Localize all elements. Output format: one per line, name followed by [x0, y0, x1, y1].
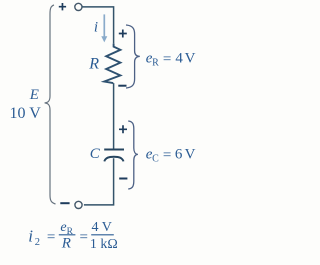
svg-text:i: i	[28, 226, 33, 245]
svg-text:10 V: 10 V	[10, 105, 42, 122]
svg-text:R: R	[88, 55, 99, 72]
wire bottom	[84, 158, 114, 205]
svg-text:i: i	[94, 19, 98, 35]
capacitor C	[104, 150, 124, 162]
plus sign capacitor	[119, 125, 127, 133]
wire top	[82, 7, 114, 44]
svg-text:=: =	[163, 52, 171, 68]
plus sign resistor	[119, 30, 127, 38]
svg-text:6: 6	[175, 146, 183, 162]
svg-text:1 kΩ: 1 kΩ	[90, 237, 118, 252]
minus sign source	[60, 202, 69, 204]
svg-text:E: E	[29, 87, 39, 103]
terminal top	[75, 3, 82, 10]
minus sign capacitor	[119, 178, 127, 180]
svg-text:=: =	[163, 147, 171, 163]
resistor R	[104, 44, 120, 84]
svg-text:4: 4	[175, 51, 183, 67]
svg-text:V: V	[185, 51, 196, 67]
plus sign source	[59, 3, 66, 10]
terminal bottom	[75, 201, 82, 208]
svg-text:C: C	[90, 146, 101, 162]
svg-text:V: V	[185, 146, 196, 162]
wire resistor to capacitor	[113, 83, 115, 149]
label eR = 4 V	[146, 51, 196, 69]
svg-text:R: R	[152, 57, 159, 68]
svg-text:=: =	[80, 230, 88, 246]
svg-text:=: =	[47, 230, 55, 246]
minus sign resistor	[118, 85, 126, 87]
svg-text:C: C	[152, 154, 159, 165]
voltage source brace E	[45, 5, 56, 204]
svg-text:2: 2	[35, 237, 40, 248]
label eC = 6 V	[146, 146, 196, 164]
brace resistor	[126, 25, 140, 88]
formula i2 = eR/R = 4V/1kOhm	[28, 220, 118, 252]
svg-text:R: R	[61, 236, 71, 252]
svg-text:4 V: 4 V	[92, 220, 112, 235]
current arrow i	[101, 14, 107, 42]
brace capacitor	[128, 121, 138, 189]
